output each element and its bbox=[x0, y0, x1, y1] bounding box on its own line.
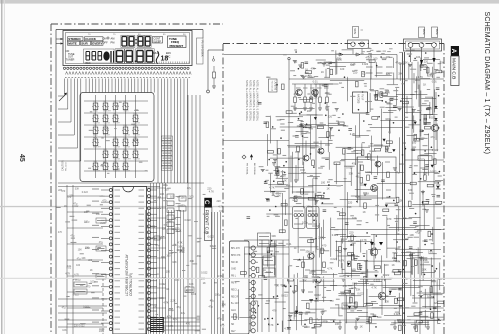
svg-text:10K: 10K bbox=[352, 216, 357, 220]
svg-text:TAPE: TAPE bbox=[435, 29, 438, 35]
board outline MAIN C.B right edge bbox=[443, 44, 445, 334]
svg-text:OFF: OFF bbox=[103, 41, 109, 45]
wire bus right of U1 bbox=[151, 183, 166, 334]
svg-text:470: 470 bbox=[61, 190, 66, 193]
svg-text:0.022: 0.022 bbox=[357, 291, 364, 295]
wire group bottom middle bbox=[163, 318, 200, 330]
FRONT C.B inner solid border bbox=[56, 30, 203, 334]
svg-text:10K: 10K bbox=[62, 329, 67, 332]
svg-text:MUTE: MUTE bbox=[68, 41, 77, 45]
svg-text:47µ: 47µ bbox=[308, 75, 313, 78]
svg-text:4.7K: 4.7K bbox=[168, 325, 173, 328]
title text SCHEMATIC DIAGRAM bbox=[483, 12, 490, 155]
svg-text:1K: 1K bbox=[308, 209, 311, 213]
label FL-1 9-520EK bbox=[197, 38, 205, 64]
svg-text:2.2K: 2.2K bbox=[282, 284, 288, 288]
svg-text:33K: 33K bbox=[276, 193, 281, 197]
coil blocks T1 T2 bbox=[263, 256, 275, 277]
wire stubs bus middle bbox=[146, 188, 166, 328]
svg-text:100: 100 bbox=[166, 255, 171, 258]
svg-text:100µ: 100µ bbox=[381, 57, 387, 60]
page left edge lines bbox=[2, 0, 5, 334]
grounds scattered right half bbox=[261, 61, 425, 319]
svg-text:4.7K: 4.7K bbox=[438, 71, 443, 74]
svg-text:4.7K: 4.7K bbox=[218, 205, 223, 208]
svg-text:33K: 33K bbox=[302, 279, 307, 283]
svg-text:47µ: 47µ bbox=[315, 317, 320, 321]
svg-text:33K: 33K bbox=[349, 171, 354, 175]
key matrix wires bbox=[84, 95, 148, 178]
svg-text:4.7K: 4.7K bbox=[217, 275, 222, 278]
wire rail x289 bbox=[288, 57, 290, 334]
svg-text:4.7K: 4.7K bbox=[371, 285, 377, 289]
svg-text:PRESET: PRESET bbox=[103, 135, 111, 137]
label A MAIN C.B bbox=[450, 46, 459, 86]
svg-text:REC R: REC R bbox=[231, 296, 238, 298]
svg-text:AGC: AGC bbox=[231, 309, 236, 312]
svg-text:10K: 10K bbox=[350, 243, 355, 247]
svg-text:47µ: 47µ bbox=[395, 171, 400, 175]
svg-text:2.2K: 2.2K bbox=[100, 222, 105, 225]
svg-text:47µ: 47µ bbox=[73, 202, 78, 205]
svg-text:0.022: 0.022 bbox=[418, 158, 425, 162]
svg-text:4.7K: 4.7K bbox=[268, 323, 274, 327]
svg-text:100: 100 bbox=[384, 263, 389, 267]
resistor blocks left of U1 bbox=[96, 218, 106, 279]
svg-text:PB R: PB R bbox=[231, 283, 237, 285]
svg-text:100µ: 100µ bbox=[99, 330, 105, 333]
svg-text:470: 470 bbox=[86, 285, 91, 288]
svg-text:4.7K: 4.7K bbox=[65, 272, 70, 275]
resistor group below speaker terminals bbox=[408, 60, 442, 78]
svg-text:4.7K: 4.7K bbox=[167, 315, 172, 318]
svg-text:100: 100 bbox=[402, 141, 407, 145]
svg-text:100µ: 100µ bbox=[168, 309, 174, 312]
display indicator blocks STEREO CLOCK MUTE bbox=[68, 37, 104, 46]
svg-text:47µ: 47µ bbox=[430, 135, 435, 139]
svg-text:33K: 33K bbox=[305, 250, 310, 254]
svg-text:470: 470 bbox=[311, 68, 316, 71]
svg-text:47µ: 47µ bbox=[217, 318, 222, 321]
svg-text:PRESENT: PRESENT bbox=[170, 44, 184, 48]
svg-text:1K: 1K bbox=[339, 81, 342, 85]
svg-text:TAPE: TAPE bbox=[353, 28, 356, 34]
svg-text:220: 220 bbox=[434, 301, 439, 305]
component value texts right half bbox=[266, 62, 441, 331]
svg-text:47µ: 47µ bbox=[395, 61, 400, 64]
display band scale numbers bbox=[88, 34, 186, 36]
svg-text:10K: 10K bbox=[81, 257, 86, 260]
svg-text:100: 100 bbox=[166, 270, 171, 273]
svg-text:47µ: 47µ bbox=[155, 244, 160, 247]
svg-text:47µ: 47µ bbox=[352, 162, 357, 166]
transistor stage Q4 Q5 bbox=[294, 141, 330, 183]
wire bundle display left pins bbox=[58, 79, 81, 162]
svg-text:4.7K: 4.7K bbox=[327, 267, 333, 271]
svg-text:CLOCK: CLOCK bbox=[85, 37, 96, 41]
svg-text:ON: ON bbox=[103, 37, 107, 41]
crystal X1 bbox=[152, 236, 162, 240]
svg-text:4.7K: 4.7K bbox=[209, 190, 214, 193]
svg-text:470: 470 bbox=[272, 309, 277, 313]
svg-text:4.7K: 4.7K bbox=[395, 260, 401, 264]
svg-text:4.7K: 4.7K bbox=[163, 302, 168, 305]
svg-text:1K: 1K bbox=[363, 210, 366, 214]
svg-text:220: 220 bbox=[207, 187, 212, 190]
wire rail y229 bbox=[330, 229, 444, 231]
display dial scale ticks bbox=[120, 62, 189, 64]
wire tuner lead bbox=[207, 50, 223, 93]
svg-text:47µ: 47µ bbox=[210, 300, 215, 303]
capacitor C near FL bbox=[212, 66, 216, 88]
svg-text:EVERY: EVERY bbox=[92, 41, 102, 45]
svg-text:1K: 1K bbox=[360, 324, 363, 328]
svg-text:220: 220 bbox=[217, 200, 222, 203]
label C FRONT C.B bbox=[203, 198, 212, 241]
net labels left of U1 bbox=[58, 187, 107, 333]
resistor array right of U1 bbox=[167, 194, 181, 234]
svg-text:47µ: 47µ bbox=[299, 310, 304, 314]
svg-text:TUNING: TUNING bbox=[113, 171, 120, 173]
svg-text:PRESET: PRESET bbox=[113, 123, 121, 125]
display TUNE FREQ PRESET indicator bbox=[168, 36, 187, 48]
svg-text:1K: 1K bbox=[305, 69, 308, 72]
svg-text:100: 100 bbox=[351, 268, 356, 272]
svg-text:BPL 47K: BPL 47K bbox=[231, 248, 240, 250]
display pin number labels bbox=[65, 77, 190, 79]
svg-text:1K: 1K bbox=[423, 82, 426, 86]
svg-text:1K: 1K bbox=[301, 74, 304, 78]
svg-text:33K: 33K bbox=[398, 72, 403, 75]
svg-text:47µ: 47µ bbox=[356, 174, 361, 178]
connector TAPE jack labels right pair bbox=[419, 27, 439, 38]
antenna terminal mark bbox=[212, 56, 214, 61]
diodes D1 D2 and transistor Q3 right column bbox=[431, 92, 438, 140]
svg-text:1K: 1K bbox=[327, 186, 330, 190]
horizontal page fold line bbox=[0, 206, 499, 207]
svg-text:220: 220 bbox=[185, 291, 190, 294]
svg-text:B+ 12V: B+ 12V bbox=[231, 303, 239, 305]
svg-text:100: 100 bbox=[408, 188, 413, 192]
svg-text:100: 100 bbox=[189, 196, 194, 199]
page top scanner band bbox=[0, 0, 499, 4]
signal arrow into key matrix bbox=[59, 93, 67, 101]
svg-text:0.022: 0.022 bbox=[322, 83, 329, 87]
wire bus extra middle bbox=[146, 210, 184, 334]
IC U1 pin name labels bbox=[115, 190, 145, 329]
connector TAPE jack label left bbox=[353, 27, 364, 38]
svg-text:SD: SD bbox=[231, 324, 235, 326]
svg-text:33K: 33K bbox=[190, 260, 195, 263]
svg-text:FM IF: FM IF bbox=[361, 94, 364, 101]
svg-text:1K: 1K bbox=[321, 71, 324, 74]
svg-text:33K: 33K bbox=[423, 258, 428, 262]
svg-text:100: 100 bbox=[181, 196, 186, 199]
display pin terminal circles bbox=[63, 67, 189, 69]
parts bottom middle bbox=[282, 303, 324, 332]
svg-text:33K: 33K bbox=[356, 287, 361, 291]
svg-text:0.022: 0.022 bbox=[79, 325, 86, 328]
svg-text:0.022: 0.022 bbox=[332, 233, 339, 237]
svg-text:10K: 10K bbox=[161, 256, 166, 259]
svg-text:47µ: 47µ bbox=[208, 202, 213, 205]
svg-text:47µ: 47µ bbox=[366, 56, 371, 59]
svg-text:4.7K: 4.7K bbox=[177, 241, 182, 244]
wire forest bottom right extra bbox=[334, 239, 442, 328]
parts bottom right B bbox=[392, 237, 443, 279]
IC U1 LC7265 body bbox=[113, 187, 147, 334]
svg-text:0.022: 0.022 bbox=[330, 257, 337, 261]
svg-text:MIC: MIC bbox=[166, 56, 171, 59]
svg-text:45: 45 bbox=[18, 154, 25, 162]
resistor row above electrolytics bbox=[289, 193, 330, 205]
svg-text:47µ: 47µ bbox=[415, 230, 420, 234]
svg-text:1K: 1K bbox=[392, 263, 395, 267]
svg-text:2.2K: 2.2K bbox=[312, 95, 318, 99]
svg-text:33K: 33K bbox=[96, 213, 101, 216]
svg-text:1K: 1K bbox=[327, 180, 330, 184]
svg-text:1K: 1K bbox=[203, 282, 206, 285]
svg-text:10K: 10K bbox=[392, 256, 397, 260]
svg-text:0.01: 0.01 bbox=[286, 242, 292, 246]
svg-text:0.022: 0.022 bbox=[82, 191, 89, 194]
wires from speaker terminals with arrows bbox=[411, 48, 436, 66]
svg-text:REC: REC bbox=[86, 62, 91, 65]
wire group bottom left bbox=[58, 299, 107, 327]
wire top right vertical bbox=[396, 55, 398, 80]
svg-text:470: 470 bbox=[326, 91, 331, 95]
svg-text:4.7K: 4.7K bbox=[269, 185, 275, 189]
wire group into connector bbox=[244, 240, 289, 254]
label CN8 OA15 bbox=[342, 303, 356, 309]
svg-text:SW 4K: SW 4K bbox=[231, 262, 239, 264]
svg-text:0.01: 0.01 bbox=[310, 269, 316, 273]
svg-text:470: 470 bbox=[186, 323, 191, 326]
junction dots right half bbox=[249, 51, 441, 328]
label TAPE PB REC bbox=[258, 233, 271, 246]
svg-text:100: 100 bbox=[340, 68, 345, 71]
svg-text:4.7K: 4.7K bbox=[361, 238, 367, 242]
svg-text:100µ: 100µ bbox=[302, 220, 308, 224]
IC U1 part number text bbox=[125, 253, 133, 296]
svg-text:1K: 1K bbox=[166, 288, 169, 291]
svg-text:47µ: 47µ bbox=[99, 241, 104, 244]
extra net labels bottom left bbox=[57, 196, 105, 329]
svg-text:0.022: 0.022 bbox=[73, 294, 80, 297]
capacitor group right of U1 bbox=[179, 196, 186, 211]
IC U1 pin leads bbox=[101, 190, 157, 329]
component value labels scattered bbox=[235, 50, 442, 328]
svg-text:STEREO: STEREO bbox=[68, 37, 81, 41]
wire forest top right extra bbox=[394, 58, 438, 139]
svg-text:1K: 1K bbox=[352, 70, 355, 73]
svg-text:470: 470 bbox=[151, 226, 156, 229]
svg-text:0.022: 0.022 bbox=[159, 283, 166, 286]
svg-text:1K: 1K bbox=[294, 314, 297, 318]
svg-text:2.2K: 2.2K bbox=[403, 61, 408, 64]
svg-text:0.01: 0.01 bbox=[428, 250, 434, 254]
svg-text:100µ: 100µ bbox=[322, 319, 328, 323]
svg-text:100µ: 100µ bbox=[215, 293, 221, 296]
svg-text:4.7K: 4.7K bbox=[317, 62, 322, 65]
parts above AM block bbox=[344, 143, 392, 156]
svg-text:TUNING: TUNING bbox=[133, 159, 140, 161]
svg-text:0.022: 0.022 bbox=[201, 272, 208, 275]
svg-text:0.022: 0.022 bbox=[178, 204, 185, 207]
svg-text:47µ: 47µ bbox=[70, 235, 75, 238]
svg-text:0.022: 0.022 bbox=[362, 63, 369, 66]
svg-text:NOTE: ALL MAIN PARTS / 1 SPECI: NOTE: ALL MAIN PARTS / 1 SPECIAL bbox=[256, 80, 259, 122]
svg-text:0.022: 0.022 bbox=[430, 170, 437, 174]
fluorescent display DISP1 outline bbox=[63, 31, 192, 66]
svg-text:220: 220 bbox=[74, 325, 79, 328]
IC U1 pin circles bbox=[109, 189, 150, 331]
display timer segment group bbox=[84, 49, 115, 65]
wire rail y79 bbox=[289, 78, 444, 80]
svg-text:100µ: 100µ bbox=[317, 150, 323, 154]
wire rail y140 bbox=[223, 140, 289, 142]
legend FM/AM signal bbox=[242, 154, 256, 176]
svg-text:PRESET: PRESET bbox=[93, 171, 101, 173]
label FL-2 bbox=[185, 287, 194, 293]
display left edge terminals bbox=[56, 38, 63, 45]
board outline MAIN C.B left edge bbox=[222, 44, 224, 334]
svg-text:2.2K: 2.2K bbox=[170, 300, 175, 303]
svg-text:10K: 10K bbox=[335, 322, 340, 326]
svg-text:33K: 33K bbox=[347, 205, 352, 209]
svg-text:0.022: 0.022 bbox=[208, 236, 215, 239]
svg-text:MUTE: MUTE bbox=[231, 317, 238, 319]
display ON OFF AM PM indicators bbox=[103, 37, 115, 45]
wire left riser A bbox=[66, 185, 68, 334]
diode symbols scattered bbox=[295, 117, 434, 313]
wire rail x316 bbox=[315, 84, 317, 334]
capacitors scattered right half bbox=[247, 62, 440, 314]
wire rail x412 bbox=[411, 62, 413, 200]
svg-text:220: 220 bbox=[348, 201, 353, 205]
key matrix caution label bbox=[62, 160, 68, 171]
page number 45 bbox=[18, 154, 25, 162]
svg-text:100: 100 bbox=[361, 73, 366, 76]
svg-text:100: 100 bbox=[321, 180, 326, 184]
svg-text:33K: 33K bbox=[350, 64, 355, 67]
display CONT SLEEP indicator bbox=[153, 37, 163, 44]
board outline FRONT C.B left edge bbox=[50, 24, 52, 334]
svg-text:4.7K: 4.7K bbox=[339, 259, 345, 263]
svg-text:10K: 10K bbox=[172, 218, 177, 221]
terminal strip J2 bbox=[348, 40, 369, 54]
svg-text:10K: 10K bbox=[168, 252, 173, 255]
svg-text:10K: 10K bbox=[422, 267, 427, 271]
svg-text:TO-3 LU A: TO-3 LU A bbox=[271, 81, 274, 92]
svg-text:100µ: 100µ bbox=[385, 117, 391, 121]
svg-text:AM SIGNAL: AM SIGNAL bbox=[253, 163, 256, 176]
wire bus front-main interconnect bbox=[188, 95, 200, 334]
svg-text:47µ: 47µ bbox=[173, 318, 178, 321]
svg-text:PM: PM bbox=[111, 41, 115, 45]
svg-text:10K: 10K bbox=[282, 178, 287, 182]
svg-text:FL-1 9-520EK: FL-1 9-520EK bbox=[200, 41, 204, 57]
discrete parts around AN7205 bbox=[370, 85, 398, 112]
svg-text:47µ: 47µ bbox=[62, 307, 67, 310]
svg-text:0.022: 0.022 bbox=[346, 166, 353, 170]
wire forest horizontal right half bbox=[239, 50, 441, 324]
svg-text:0.022: 0.022 bbox=[432, 148, 439, 152]
wire rail x345 bbox=[344, 150, 346, 334]
display source indicators CD TUNER bbox=[66, 49, 75, 62]
svg-text:1K: 1K bbox=[397, 232, 400, 236]
ground symbols bottom bbox=[338, 320, 430, 329]
svg-text:MAIN C.B: MAIN C.B bbox=[450, 58, 456, 79]
svg-text:0.022: 0.022 bbox=[314, 293, 321, 297]
svg-text:220: 220 bbox=[398, 319, 403, 323]
svg-text:220: 220 bbox=[328, 115, 333, 119]
display clock digits 88:88 bbox=[121, 35, 151, 47]
wire forest vertical right half bbox=[239, 50, 438, 332]
svg-text:470: 470 bbox=[387, 217, 392, 221]
svg-text:4.7K: 4.7K bbox=[385, 91, 391, 95]
svg-text:VOL: VOL bbox=[103, 171, 107, 173]
resistor R120 and diode D3 right bbox=[405, 155, 444, 189]
svg-text:10K: 10K bbox=[440, 61, 445, 64]
svg-text:MEMORY: MEMORY bbox=[93, 147, 102, 149]
parts bottom right A bbox=[336, 237, 368, 279]
svg-text:0.022: 0.022 bbox=[210, 245, 217, 248]
svg-text:2.2K: 2.2K bbox=[350, 132, 356, 136]
svg-text:0.01: 0.01 bbox=[313, 80, 319, 84]
svg-text:1K: 1K bbox=[90, 269, 93, 272]
svg-text:10K: 10K bbox=[222, 304, 227, 307]
capacitor group right edge bbox=[419, 85, 433, 139]
svg-text:470: 470 bbox=[322, 243, 327, 247]
svg-text:33K: 33K bbox=[75, 187, 80, 190]
svg-text:0.01: 0.01 bbox=[219, 210, 224, 213]
svg-text:0.022: 0.022 bbox=[365, 170, 372, 174]
svg-text:10K: 10K bbox=[307, 109, 312, 113]
IC block AN7205 bbox=[353, 92, 368, 113]
svg-text:4.7K: 4.7K bbox=[284, 326, 290, 330]
svg-text:100: 100 bbox=[164, 189, 169, 192]
svg-text:0.01: 0.01 bbox=[191, 293, 196, 296]
svg-text:100µ: 100µ bbox=[428, 74, 434, 77]
parts bottom right C bbox=[338, 284, 378, 332]
small parts under rail y79 left bbox=[292, 113, 340, 139]
svg-text:100µ: 100µ bbox=[171, 228, 177, 231]
svg-text:47µ: 47µ bbox=[187, 187, 192, 190]
AM converter block Q6 bbox=[357, 157, 396, 198]
key matrix block outline bbox=[80, 93, 154, 182]
resistors scattered right half bbox=[234, 60, 442, 331]
svg-text:220: 220 bbox=[88, 259, 93, 262]
svg-text:47µ: 47µ bbox=[177, 306, 182, 309]
wire bundle display to key matrix bbox=[86, 79, 154, 93]
schematic notes text bbox=[245, 80, 259, 122]
svg-text:100: 100 bbox=[170, 196, 175, 199]
value labels top right bbox=[366, 67, 393, 73]
transistor stage Q7 Q8 bbox=[300, 240, 327, 300]
svg-text:100: 100 bbox=[373, 58, 378, 61]
small parts mid x345-400 y60-78 bbox=[300, 58, 337, 78]
svg-text:100: 100 bbox=[313, 176, 318, 180]
svg-text:10K: 10K bbox=[409, 233, 414, 237]
svg-text:10K: 10K bbox=[311, 326, 316, 330]
svg-text:0.022: 0.022 bbox=[185, 219, 192, 222]
wire horizontal under matrix bbox=[58, 183, 204, 187]
svg-text:47µ: 47µ bbox=[77, 258, 82, 261]
svg-text:47µ: 47µ bbox=[181, 312, 186, 315]
svg-text:TAPE: TAPE bbox=[422, 29, 425, 35]
svg-text:TUNER: TUNER bbox=[66, 58, 75, 62]
